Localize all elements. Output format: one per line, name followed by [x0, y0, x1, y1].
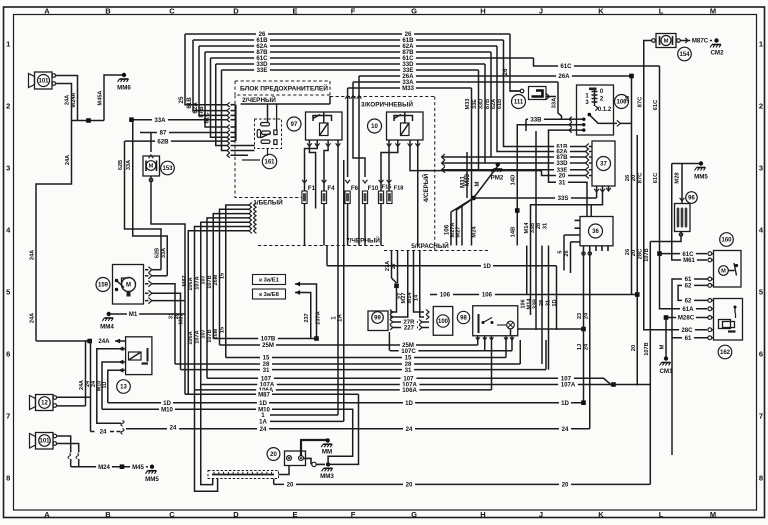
svg-text:M45A: M45A: [98, 91, 104, 106]
svg-text:33A: 33A: [161, 248, 167, 258]
unit 162 relay internals: [719, 320, 731, 329]
relay 10 contact: [394, 116, 413, 122]
svg-text:5/КРАСНЫЙ: 5/КРАСНЫЙ: [411, 241, 449, 250]
unit 160 motor symbol: [719, 266, 729, 276]
svg-text:1A: 1A: [259, 419, 267, 426]
svg-text:M61: M61: [683, 257, 695, 264]
svg-text:28: 28: [536, 223, 542, 229]
svg-text:24A: 24A: [65, 95, 71, 105]
svg-text:162: 162: [720, 350, 731, 356]
svg-text:M10: M10: [161, 406, 173, 413]
unit 96 bottom wire to 107B: [650, 232, 681, 242]
wire 1D from relay13 pin4: [108, 370, 119, 403]
wire 15 bundle white connector: [226, 205, 249, 358]
wire 61C vertical right: [660, 66, 708, 309]
relay 13 pins: [118, 346, 123, 351]
ground MM6: [104, 75, 124, 121]
wire 227 long line to vertical 23: [518, 328, 584, 330]
wire relay97 pin1 to white connector: [309, 147, 315, 209]
svg-text:107B: 107B: [207, 329, 213, 342]
svg-text:PM2: PM2: [491, 175, 504, 182]
svg-text:33E: 33E: [472, 99, 478, 109]
wire 24 vertical joins 24 line: [589, 428, 591, 430]
fuse F1: [302, 191, 307, 204]
svg-text:8: 8: [759, 474, 763, 483]
wire 14D/14B vertical from switch: [517, 125, 570, 246]
svg-text:28C: 28C: [638, 248, 644, 259]
wire 1 horizontal: [270, 414, 338, 416]
wire bus 87B horizontal: [205, 51, 491, 53]
svg-text:61C: 61C: [560, 63, 572, 70]
wire relay10 pin1 to fuse F18: [388, 147, 390, 178]
svg-text:M45: M45: [132, 464, 144, 471]
relay 111 pin left: [520, 89, 524, 93]
svg-text:F4: F4: [327, 185, 335, 192]
wire 87B drop: [490, 52, 492, 157]
svg-text:к 3а/Е1: к 3а/Е1: [259, 278, 279, 284]
wire 61B drop to fuse box connector: [193, 40, 227, 111]
relay 97 coil: [320, 123, 329, 136]
circle unit 36: [589, 224, 603, 238]
circle relay 111: [512, 95, 526, 109]
wire 24 vertical from unit 36: [589, 246, 591, 429]
wire junction 24A: [72, 120, 105, 122]
wire 23/1J vertical from unit 36: [583, 246, 585, 403]
wire 107C horizontal: [390, 350, 512, 352]
fuse box connector pins left column: [227, 102, 230, 107]
wire 237 to E8: [295, 293, 311, 339]
wire 31 horizontal: [181, 369, 547, 371]
wire M87 drop to MM3: [328, 394, 358, 464]
svg-text:31: 31: [543, 223, 549, 229]
svg-text:H: H: [480, 510, 485, 519]
wire M33 horizontal: [348, 87, 472, 89]
svg-text:F1: F1: [308, 185, 316, 192]
wire 61 lower: [672, 337, 708, 339]
svg-text:M87: M87: [182, 276, 188, 287]
wire 1D horizontal long: [108, 402, 584, 404]
svg-text:10: 10: [371, 124, 378, 130]
svg-text:153: 153: [162, 166, 173, 172]
svg-text:20: 20: [287, 482, 294, 489]
wire 62B down to wiper relay: [125, 141, 162, 270]
wire 61C jog to right: [534, 58, 660, 66]
wire 87B drop to fuse box connector: [205, 52, 227, 127]
svg-text:20: 20: [270, 452, 277, 458]
svg-text:MM5: MM5: [145, 476, 159, 483]
unit 96 top feed: [681, 164, 683, 204]
svg-text:24: 24: [170, 425, 177, 432]
svg-text:6: 6: [759, 350, 763, 359]
svg-text:107B: 107B: [207, 275, 213, 288]
svg-text:106A: 106A: [188, 277, 194, 290]
wire 27A/27 from red connector: [391, 251, 393, 279]
wire 62A drop to fuse box connector: [199, 46, 227, 115]
wire M10 horizontal: [102, 409, 353, 464]
wire 159 pin5: [152, 300, 185, 302]
wire 33A down to switch: [558, 82, 562, 119]
relay 97 box: [306, 112, 343, 140]
wire 107 horizontal: [207, 378, 612, 385]
wire bus 62A horizontal: [199, 45, 497, 47]
circle unit 20: [267, 448, 280, 461]
unit 36 box: [580, 217, 613, 246]
wire M10 from relay13 pin3: [102, 362, 118, 409]
relay 13 box: [126, 337, 152, 375]
svg-text:B: B: [105, 510, 111, 519]
wire 61C drop to fuse box connector: [211, 58, 228, 137]
circle unit 100: [437, 315, 449, 327]
svg-text:5: 5: [759, 288, 763, 297]
svg-text:M27: M27: [456, 226, 462, 237]
wire horn101 pin1: [57, 436, 71, 453]
wire 24 horizontal long: [126, 428, 590, 430]
unit 37 box: [592, 141, 615, 186]
svg-text:12: 12: [41, 401, 48, 407]
svg-text:1A: 1A: [337, 314, 344, 322]
wire 107B horizontal: [213, 338, 316, 340]
svg-text:MM3: MM3: [320, 473, 334, 480]
wire 15 horizontal: [226, 357, 506, 359]
svg-text:28: 28: [539, 300, 545, 306]
wire 26 vertical right: [631, 76, 633, 295]
wire 107 bundle white connector: [207, 218, 249, 378]
svg-text:87: 87: [160, 130, 167, 137]
wire M24 M45 ground MM5: [71, 466, 148, 468]
fuse F18: [387, 191, 392, 204]
wires fuse bottoms down: [347, 204, 349, 246]
unit 162 pins: [708, 299, 712, 303]
svg-text:MM5: MM5: [694, 174, 708, 181]
svg-text:97: 97: [291, 122, 298, 128]
horn 12 pins: [53, 396, 57, 400]
wire 33B to switch: [526, 118, 569, 120]
svg-text:106A: 106A: [402, 387, 417, 394]
svg-text:2: 2: [759, 102, 763, 111]
wire horn12 pin1: [57, 396, 91, 398]
wire M24 drop from junction: [471, 198, 473, 246]
svg-text:E: E: [292, 7, 297, 16]
circle motor 153: [161, 161, 175, 175]
svg-text:MM4: MM4: [100, 324, 114, 331]
svg-text:1D: 1D: [561, 400, 569, 407]
wire 33B vertical: [535, 131, 537, 246]
bus labels left column: [256, 30, 268, 37]
wire bus 61C horizontal: [211, 57, 534, 59]
wire 33A down to wiper relay: [133, 120, 168, 276]
wire M14 vertical lower: [530, 246, 532, 316]
svg-text:7: 7: [6, 412, 10, 421]
wire 28 vertical: [541, 246, 543, 365]
svg-text:C: C: [169, 7, 175, 16]
wire M28C ground CM1: [666, 317, 708, 319]
wire 106A horizontal: [195, 389, 492, 391]
heater strip contact bar: [212, 474, 274, 476]
svg-text:227: 227: [404, 325, 415, 332]
svg-text:0.1.2: 0.1.2: [598, 107, 612, 113]
unit 36 bottom pins: [595, 246, 597, 251]
horn 101 pins: [53, 434, 57, 438]
wire 20 horizontal long: [274, 483, 651, 485]
circle unit 96: [686, 192, 698, 204]
wire 237A to E1: [295, 284, 317, 339]
svg-text:M: M: [149, 164, 154, 170]
svg-text:13: 13: [120, 385, 127, 391]
wire 26A horizontal: [359, 75, 632, 77]
wire 1 vertical from relay97 pin4: [337, 147, 339, 416]
relay 13 coil: [129, 352, 142, 360]
wire 33E row to unit 37: [442, 169, 586, 171]
wire 26A pin into brown connector pass-through: [358, 76, 360, 246]
svg-text:G: G: [411, 7, 417, 16]
svg-text:26M: 26M: [213, 274, 219, 285]
wire fuse F1 down: [304, 204, 306, 246]
svg-text:3: 3: [6, 164, 10, 173]
wire 107/107A junction to 107B vertical: [636, 384, 638, 386]
svg-text:2: 2: [6, 102, 10, 111]
svg-text:237: 237: [304, 313, 310, 322]
wire 62 link: [678, 285, 708, 300]
svg-text:27: 27: [391, 263, 397, 269]
svg-text:E: E: [292, 510, 297, 519]
circle relay 10: [368, 119, 382, 133]
svg-text:K: K: [598, 7, 604, 16]
wire relay10 pin2 to fuse F15: [381, 147, 398, 178]
svg-text:MM6: MM6: [117, 85, 131, 92]
svg-text:C: C: [169, 510, 175, 519]
wire 106 horizontal: [430, 294, 637, 296]
svg-text:M: M: [126, 283, 131, 289]
svg-text:4/СЕРЫЙ: 4/СЕРЫЙ: [422, 173, 430, 202]
connector 5/red dashed line: [384, 250, 490, 252]
svg-text:1: 1: [6, 40, 10, 49]
wire 1D upper horizontal: [327, 265, 557, 267]
motor 154 pins: [652, 39, 656, 43]
svg-text:14D: 14D: [511, 175, 517, 186]
wire 1A horizontal: [270, 420, 344, 422]
relay 111 box: [529, 87, 547, 100]
wire relay97 pin3 to fuse F4: [324, 147, 328, 178]
wire M61 to unit 160: [672, 164, 707, 261]
wire 25M end at 98: [477, 340, 479, 345]
wire 24 from relay13 pin2: [97, 349, 121, 424]
fuse F4: [321, 191, 326, 204]
wire 24A long vertical: [36, 121, 72, 342]
svg-text:20: 20: [562, 482, 569, 489]
wire 26 drop to fuse box connector: [185, 34, 227, 105]
circle unit 106: [615, 95, 629, 109]
svg-text:161: 161: [264, 160, 275, 166]
svg-text:159: 159: [98, 283, 109, 289]
svg-text:24A: 24A: [65, 155, 71, 165]
wire horn101 pin2: [57, 444, 79, 453]
svg-text:J: J: [539, 7, 543, 16]
svg-text:61: 61: [685, 335, 692, 342]
circle unit 161: [262, 154, 276, 168]
svg-text:1J: 1J: [577, 344, 583, 350]
svg-text:26: 26: [564, 250, 570, 256]
wire 20 vertical right: [636, 135, 638, 385]
wire 25M horizontal: [220, 344, 478, 346]
bus labels right column: [402, 30, 414, 37]
svg-text:M: M: [710, 7, 716, 16]
svg-text:CM2: CM2: [710, 50, 724, 57]
wire M87C to ground CM2: [680, 40, 712, 42]
wire 227: [393, 327, 418, 329]
svg-text:M24: M24: [472, 226, 478, 238]
svg-text:L: L: [659, 510, 664, 519]
svg-text:M: M: [660, 344, 666, 349]
wire 106 vertical: [526, 246, 528, 295]
svg-text:37: 37: [600, 162, 607, 168]
svg-text:61C: 61C: [653, 99, 659, 110]
wire bus 33D horizontal: [216, 63, 485, 65]
unit 36 top stub: [590, 205, 592, 217]
wire 107C ends at 98: [484, 340, 486, 351]
svg-text:87C: 87C: [638, 172, 644, 183]
wire strip left feeds: [195, 390, 218, 491]
relay 111 element: [532, 91, 543, 97]
wire 159 pin1: [152, 269, 161, 271]
svg-text:62B: 62B: [157, 138, 169, 145]
svg-text:3: 3: [759, 164, 763, 173]
wire 31 vertical lower: [548, 246, 550, 370]
svg-text:24: 24: [562, 426, 569, 433]
svg-text:6: 6: [6, 350, 10, 359]
junction M33/M31: [471, 196, 476, 201]
svg-text:M28C: M28C: [678, 315, 695, 322]
svg-text:8: 8: [6, 474, 10, 483]
svg-text:107B: 107B: [644, 248, 650, 261]
svg-text:24: 24: [584, 312, 590, 319]
svg-text:F15: F15: [382, 185, 392, 191]
svg-text:М: М: [475, 182, 481, 187]
unit 98 bottom pins: [477, 336, 479, 340]
switch contacts: [569, 118, 584, 120]
svg-text:96: 96: [688, 196, 695, 202]
unit 37 pins: [586, 143, 589, 149]
wire M14 to unit 100: [414, 251, 425, 313]
svg-text:M14: M14: [407, 292, 413, 304]
fuse box dashed outline: [235, 95, 330, 198]
relay 111 output: [546, 96, 556, 98]
wire 87C/28C vertical: [644, 41, 707, 330]
wire relay10 pin4 down: [417, 147, 419, 246]
wire 28 horizontal: [175, 363, 520, 365]
svg-text:62B: 62B: [155, 248, 161, 258]
wire unit20 terminal1 to strip: [279, 466, 290, 475]
circle unit 159: [96, 278, 110, 292]
motor 153 top feed from 87: [150, 133, 152, 153]
unit 20 terminals: [287, 456, 292, 461]
wire 159 pin2: [152, 275, 167, 277]
wire 33A pin into brown connector to fuse F10: [353, 82, 365, 177]
motor 154 symbol: [661, 36, 671, 46]
circle relay 97: [287, 117, 301, 131]
svg-text:K: K: [598, 510, 604, 519]
svg-text:F10: F10: [368, 185, 379, 192]
svg-text:7/ЧЕРНЫЙ: 7/ЧЕРНЫЙ: [346, 235, 380, 244]
svg-text:24A: 24A: [98, 338, 110, 345]
svg-text:160: 160: [721, 238, 732, 244]
svg-text:14B: 14B: [511, 227, 517, 238]
relay 97 pins: [308, 140, 310, 147]
svg-text:M28: M28: [675, 172, 681, 184]
svg-text:5: 5: [6, 288, 10, 297]
svg-text:26A: 26A: [558, 73, 570, 80]
wire 27R: [393, 321, 418, 323]
wire horn12 pin2: [57, 405, 86, 407]
wire 106 drop from junction: [451, 198, 474, 246]
svg-text:M33: M33: [402, 85, 414, 92]
unit 99 box: [368, 311, 388, 331]
wire 33D drop to fuse box connector: [216, 64, 227, 146]
wire 107A horizontal: [201, 384, 614, 386]
svg-text:БЛОК ПРЕДОХРАНИТЕЛЕЙ: БЛОК ПРЕДОХРАНИТЕЛЕЙ: [240, 83, 328, 92]
wire 28 from 159 pin3: [152, 284, 175, 364]
svg-text:G: G: [411, 510, 417, 519]
svg-text:107B: 107B: [644, 342, 650, 355]
svg-text:33A: 33A: [552, 97, 558, 108]
wire 20 feed from relay 10 pin3: [410, 147, 586, 176]
svg-text:MM: MM: [322, 449, 332, 456]
svg-text:5: 5: [558, 250, 564, 253]
unit 100 pins: [426, 309, 429, 314]
svg-text:31: 31: [546, 300, 552, 306]
svg-text:33A: 33A: [126, 160, 132, 170]
relay 13 contact: [147, 348, 149, 362]
switch output wire: [598, 122, 617, 124]
wiper unit 159 box: [113, 265, 144, 305]
wire 87 to connector: [140, 132, 227, 134]
svg-text:M33: M33: [465, 99, 471, 110]
svg-text:M: M: [721, 269, 726, 275]
svg-text:28C: 28C: [681, 327, 693, 334]
wire bus 26 horizontal: [185, 33, 510, 35]
svg-text:106: 106: [440, 292, 451, 299]
fuse F6: [345, 191, 350, 204]
unit 98 internals: [478, 314, 480, 333]
svg-text:24: 24: [100, 429, 107, 436]
svg-text:111: 111: [514, 100, 524, 106]
svg-text:98: 98: [460, 316, 467, 322]
svg-text:CM1: CM1: [659, 368, 673, 375]
callout box k 3a/E8: [253, 289, 286, 299]
svg-text:61C: 61C: [653, 172, 659, 183]
staircase labels at unit 37: [554, 143, 570, 150]
heater connector strip dashed: [208, 471, 279, 479]
svg-text:M: M: [664, 39, 669, 45]
svg-text:36: 36: [592, 229, 599, 235]
wire 1A vertical: [343, 160, 345, 421]
wire bus 33E horizontal: [222, 69, 479, 71]
circle horn 12: [39, 397, 51, 409]
svg-text:M31: M31: [460, 175, 467, 188]
wire 33D drop: [484, 64, 486, 163]
svg-text:L: L: [659, 7, 664, 16]
horn 101 top-left box: [35, 72, 53, 89]
unit 159 pins: [148, 267, 151, 273]
svg-text:24: 24: [260, 426, 267, 433]
svg-text:3/КОРИЧНЕВЫЙ: 3/КОРИЧНЕВЫЙ: [361, 99, 413, 108]
svg-text:M87: M87: [258, 391, 270, 398]
wire 31 from ignition switch: [549, 130, 588, 216]
circle unit 160: [720, 233, 734, 247]
wire 26M bundle white connector: [220, 209, 250, 345]
svg-text:33A: 33A: [154, 117, 166, 124]
svg-text:20: 20: [631, 345, 637, 351]
wire 107B vertical right: [649, 242, 651, 485]
